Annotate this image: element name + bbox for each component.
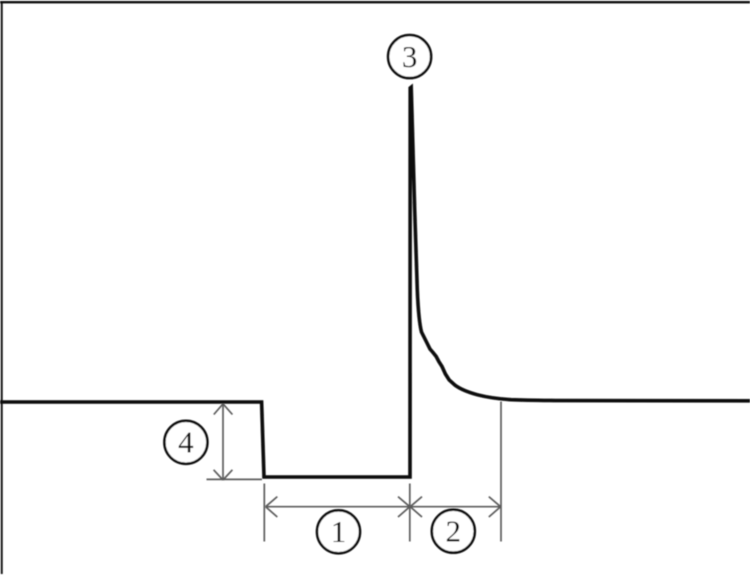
callout circle 2 (432, 510, 475, 553)
svg-text:1: 1 (331, 514, 347, 549)
callout circle 1 (317, 510, 360, 553)
extension line at settle point (500, 402, 502, 542)
left border line (1, 1, 3, 574)
svg-text:3: 3 (402, 39, 418, 74)
waveform trace (0, 87, 750, 477)
extension line at spike (409, 484, 411, 542)
extension line at start of dip (263, 484, 265, 542)
dimension 1: horizontal double arrow (266, 497, 410, 517)
dimension 4 bottom tick line (207, 478, 263, 480)
dimension 4: vertical double arrow (214, 404, 233, 480)
callout circle 3 (388, 35, 431, 78)
top border line (0, 1, 750, 3)
svg-text:2: 2 (446, 514, 462, 549)
dimension 2: horizontal double arrow (410, 497, 500, 517)
callout circle 4 (164, 421, 207, 464)
svg-text:4: 4 (178, 425, 194, 460)
